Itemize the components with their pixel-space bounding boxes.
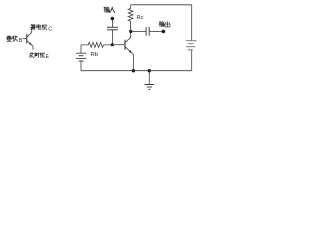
emitter lead bbox=[125, 47, 133, 71]
node ground junction bbox=[148, 69, 151, 72]
svg-text:Rb: Rb bbox=[91, 52, 98, 58]
battery B2 (supply, right) bbox=[186, 41, 196, 50]
emitter lead bbox=[27, 41, 33, 50]
svg-text:C: C bbox=[48, 26, 52, 32]
resistor Rc (vertical zigzag) bbox=[128, 5, 133, 32]
resistor Rb (horizontal zigzag) bbox=[81, 42, 112, 47]
wire top rail bbox=[131, 4, 192, 6]
transistor symbol (left, standalone) bbox=[23, 28, 33, 50]
collector lead bbox=[27, 28, 32, 38]
battery B1 (bias battery, left) bbox=[76, 45, 86, 71]
svg-text:Rc: Rc bbox=[137, 15, 144, 21]
transistor Q1 (in circuit) bbox=[125, 31, 133, 70]
wire battery bottom lead bbox=[80, 61, 82, 71]
label 输入 (input) bbox=[104, 7, 115, 13]
emitter arrow (left symbol) bbox=[29, 42, 32, 45]
node J1 (base junction) bbox=[111, 43, 114, 46]
wire capacitor to base node bbox=[111, 30, 113, 45]
wire ground stem bbox=[148, 71, 150, 85]
svg-text:B: B bbox=[19, 38, 23, 44]
wire battery bottom to rail bbox=[191, 50, 193, 71]
node emitter-to-rail junction bbox=[132, 69, 135, 72]
capacitor C2 (output coupling, vertical plates) bbox=[146, 27, 149, 36]
base bar bbox=[26, 34, 28, 44]
wire base node to transistor base bbox=[112, 44, 125, 46]
wire base lead bbox=[23, 38, 27, 40]
wire battery top lead bbox=[80, 45, 82, 53]
wire collector node to output capacitor bbox=[131, 30, 146, 32]
ground bbox=[145, 85, 154, 90]
label 输出 (output) bbox=[159, 21, 170, 27]
output terminal dot bbox=[162, 30, 166, 34]
wire capacitor to output terminal bbox=[149, 30, 163, 32]
wire right side down to battery bbox=[191, 5, 193, 41]
base bar bbox=[124, 40, 126, 50]
node collector junction bbox=[129, 30, 132, 33]
wire input dot to capacitor bbox=[111, 20, 113, 27]
label 发射极E (emitter E) bbox=[29, 53, 44, 58]
label 基极B (base B) bbox=[7, 36, 18, 42]
input terminal dot bbox=[111, 17, 115, 21]
capacitor C1 (input coupling, horizontal plates) bbox=[107, 27, 118, 30]
emitter arrow Q1 bbox=[129, 50, 132, 53]
label 集电极C (collector C) bbox=[30, 24, 47, 30]
wire bottom rail bbox=[81, 70, 192, 72]
collector lead bbox=[125, 31, 131, 43]
